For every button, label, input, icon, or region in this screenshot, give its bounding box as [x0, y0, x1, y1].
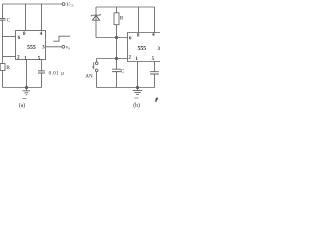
svg-text:555: 555 — [27, 45, 36, 51]
wire: bottom rail (b) — [97, 87, 155, 89]
wire: below 0.01u cap (a) — [41, 73, 43, 88]
wire: pin 5 lead (b) — [154, 62, 156, 72]
wire: pin2 down to switch (b) — [96, 59, 98, 62]
wire: left rail lower (a) — [2, 71, 4, 88]
wire: below C (b) — [116, 72, 118, 88]
wire: bottom rail (a) — [3, 87, 42, 89]
svg-text:VCC: VCC — [66, 2, 74, 8]
diode VD zener (b) — [91, 14, 101, 16]
svg-text:3: 3 — [158, 47, 160, 52]
svg-text:R: R — [120, 15, 124, 21]
artifact dash above caption a — [22, 98, 26, 100]
wire: pin 4 lead (b) — [154, 7, 156, 33]
wire: below pin5 cap (b) — [154, 74, 156, 88]
wire: pin 1 lead (b) — [137, 62, 139, 88]
node junction dot (a) — [25, 86, 27, 88]
op-amp 555 IC box (b) — [128, 33, 161, 62]
node junction dot C/pin2 (b) — [115, 57, 117, 59]
artifact mark bottom right — [155, 97, 158, 102]
svg-text:AN: AN — [85, 74, 93, 80]
capacitor C (b) — [112, 69, 121, 71]
wire: pin 8 lead (a) — [25, 4, 27, 31]
wire: pin 6 lead (b) — [96, 37, 128, 39]
resistor R (b) — [114, 13, 119, 25]
op-amp 555 IC box (a) — [16, 31, 46, 60]
wire: pin 2 lead (b) — [97, 58, 128, 60]
wire: top rail (b) — [96, 6, 155, 8]
waveform icon (a) — [53, 36, 70, 41]
wire: R branch to C (b) — [116, 25, 118, 69]
svg-text:(a): (a) — [19, 102, 26, 109]
capacitor C (a) — [0, 19, 5, 21]
ground (a) — [23, 88, 30, 95]
wire: left rail middle (a) — [2, 20, 4, 63]
artifact dash above caption b — [135, 97, 139, 99]
wire: pin 6 lead (a) — [3, 36, 16, 38]
svg-text:0.01µ: 0.01µ — [49, 71, 65, 77]
switch AN top contact (b) — [95, 62, 98, 65]
capacitor 0.01u (a) — [38, 71, 45, 73]
wire: pin 3 output lead (a) — [46, 46, 62, 48]
node Vcc terminal (a) — [62, 3, 65, 6]
switch AN lever (b) — [92, 62, 94, 69]
svg-text:C: C — [7, 18, 11, 24]
wire: top rail (a) — [3, 3, 63, 5]
svg-text:555: 555 — [137, 46, 146, 52]
wire: pin 1 lead (a) — [26, 60, 28, 88]
svg-text:C: C — [121, 68, 125, 74]
wire: diode branch (b) — [95, 7, 97, 38]
wire: pin 8 lead (b) — [138, 7, 140, 33]
wire: pin 2 lead (a) — [3, 56, 16, 58]
wire: pin 4 lead (a) — [41, 4, 43, 31]
svg-text:R: R — [6, 65, 10, 71]
node junction dot R/pin6 (b) — [115, 36, 117, 38]
wire: pin 5 lead (a) — [41, 60, 43, 71]
wire: R branch upper (b) — [116, 7, 118, 13]
wire: switch to bottom rail (b) — [96, 72, 98, 88]
ground (b) — [133, 88, 142, 95]
svg-text:(b): (b) — [133, 102, 140, 109]
wire: left rail upper (a) — [2, 4, 4, 19]
resistor R (a) — [0, 64, 5, 71]
node junction dot ground (b) — [136, 86, 138, 88]
switch AN bottom contact (b) — [95, 69, 98, 72]
node output terminal (a) — [62, 45, 65, 48]
capacitor at pin 5 (b) — [150, 72, 159, 74]
